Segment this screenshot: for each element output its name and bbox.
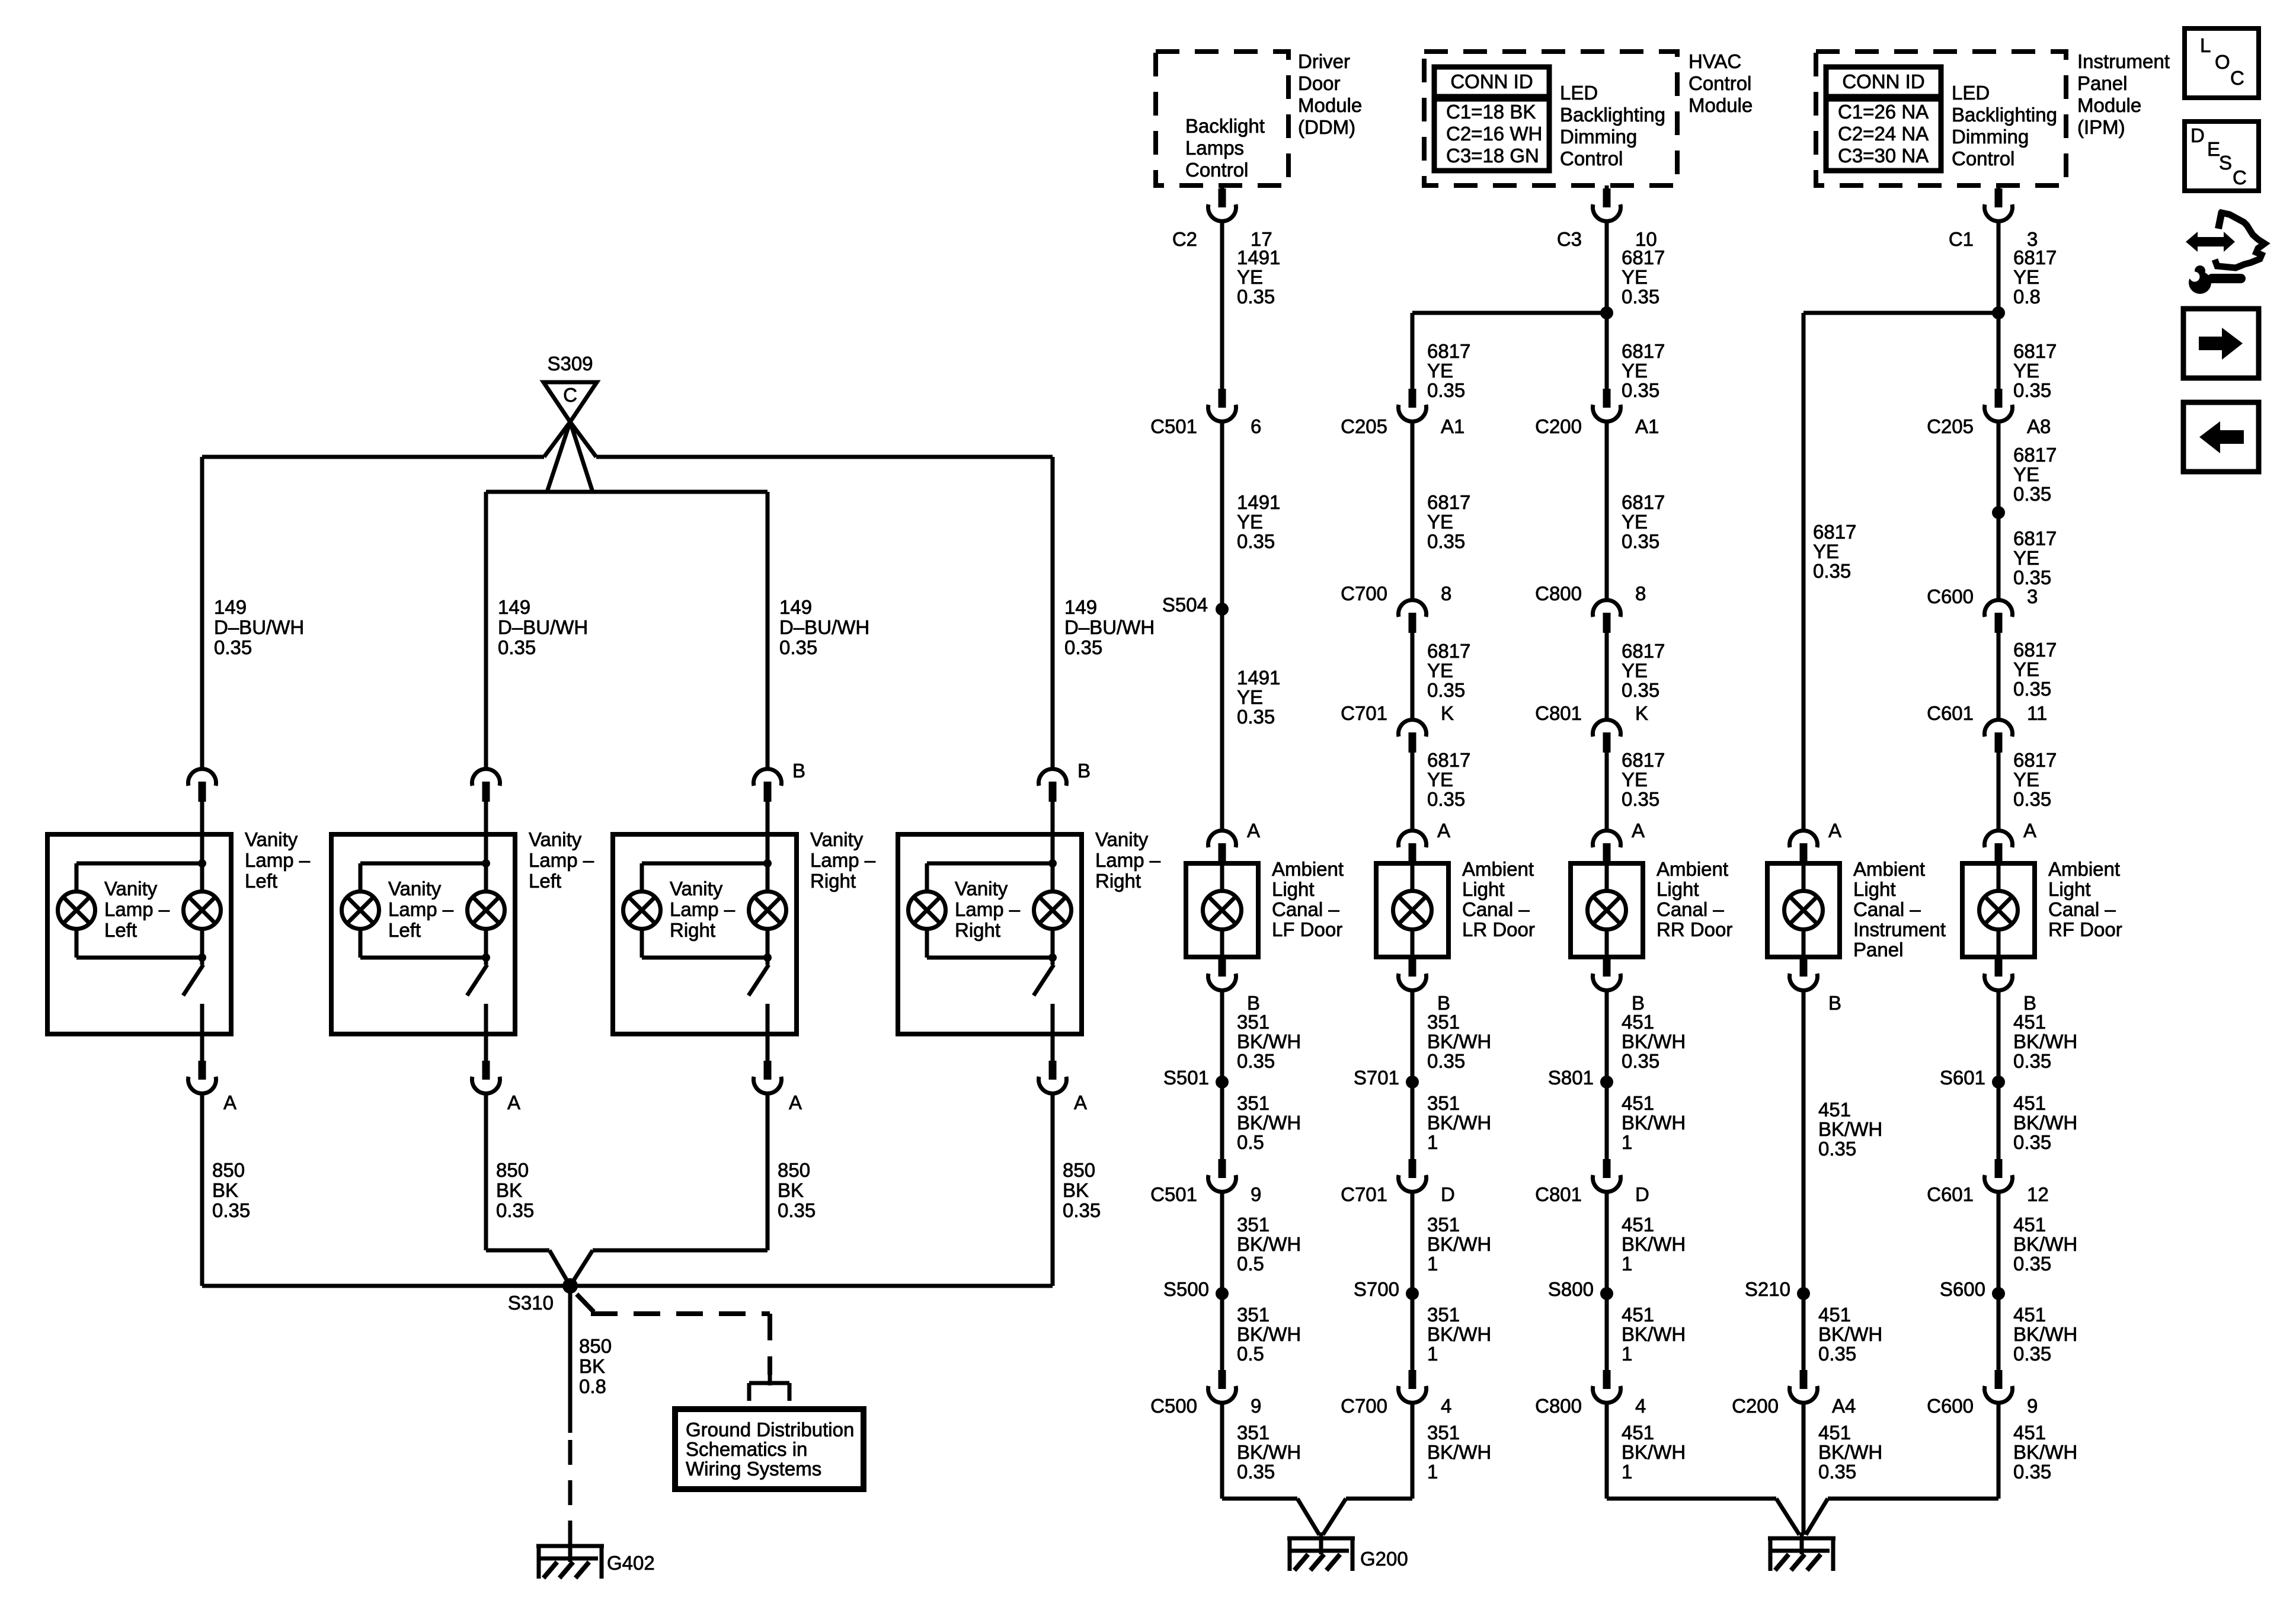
- svg-text:C200: C200: [1732, 1395, 1779, 1417]
- svg-text:Light: Light: [1272, 878, 1315, 900]
- wire: [200, 1093, 204, 1286]
- svg-text:BK/WH: BK/WH: [2013, 1441, 2077, 1463]
- svg-text:Light: Light: [1853, 878, 1896, 900]
- svg-text:YE: YE: [1427, 660, 1453, 681]
- splice S500: [1216, 1287, 1229, 1300]
- svg-text:Right: Right: [1095, 870, 1141, 892]
- wire lamp 3 branch left rise: [640, 929, 644, 958]
- svg-text:0.35: 0.35: [1818, 1138, 1856, 1160]
- svg-text:Canal –: Canal –: [1272, 898, 1339, 920]
- bulb ambient (RR Door): [1588, 891, 1626, 930]
- connector ambient lamp B (RR Door): [1603, 958, 1611, 977]
- svg-text:6: 6: [1251, 415, 1261, 437]
- svg-text:6817: 6817: [1427, 491, 1470, 513]
- svg-text:Dimming: Dimming: [1952, 126, 2029, 148]
- svg-text:Canal –: Canal –: [1462, 898, 1530, 920]
- wire: [1605, 930, 1609, 957]
- svg-text:BK: BK: [778, 1179, 804, 1201]
- svg-text:BK/WH: BK/WH: [2013, 1030, 2077, 1052]
- svg-text:6817: 6817: [2013, 444, 2057, 466]
- svg-text:YE: YE: [1427, 511, 1453, 533]
- CONN ID table (IPM): [1826, 67, 1941, 171]
- svg-text:Lamp –: Lamp –: [955, 898, 1021, 920]
- connector vanity lamp 4 pin B: [1039, 769, 1067, 786]
- svg-text:Vanity: Vanity: [529, 828, 582, 850]
- svg-text:Ambient: Ambient: [1272, 858, 1344, 880]
- wire lamp 2 branch top rail: [360, 862, 486, 866]
- svg-text:1: 1: [1427, 1343, 1438, 1365]
- wire lamp 3 branch top rail: [642, 862, 768, 866]
- svg-text:S700: S700: [1354, 1278, 1399, 1300]
- wire lamp 1 branch left rise: [75, 929, 79, 958]
- wire: [766, 802, 770, 834]
- svg-text:0.35: 0.35: [2013, 379, 2051, 401]
- wire lamp 4 branch left rise: [925, 929, 929, 958]
- wire lamp 2 internal mid: [484, 929, 488, 965]
- connector vanity lamp 4 pin A: [1049, 1061, 1057, 1080]
- svg-text:351: 351: [1427, 1214, 1460, 1235]
- svg-text:451: 451: [1622, 1422, 1654, 1443]
- ambient light lamp box (LF Door): [1186, 863, 1258, 957]
- connector C801 pin K: [1593, 720, 1621, 737]
- svg-text:0.35: 0.35: [1622, 679, 1659, 701]
- wire: [1605, 221, 1609, 389]
- svg-text:6817: 6817: [1622, 640, 1665, 662]
- connector DDM output C2: [1220, 185, 1224, 188]
- node HVAC junction: [1600, 306, 1613, 319]
- connector C600 pin 9: [1995, 1370, 2003, 1389]
- svg-text:C801: C801: [1535, 1183, 1582, 1205]
- svg-text:(IPM): (IPM): [2077, 116, 2125, 138]
- splice S801: [1600, 1076, 1613, 1089]
- connector C200 pin A4: [1800, 1370, 1808, 1389]
- wire: [1411, 421, 1415, 600]
- svg-text:C1: C1: [1949, 228, 1974, 250]
- wire: [1997, 1192, 2001, 1370]
- wire inner rail: [486, 490, 768, 494]
- wire: [766, 1034, 770, 1061]
- svg-text:0.35: 0.35: [1237, 1461, 1275, 1483]
- svg-text:6817: 6817: [1622, 340, 1665, 362]
- wire: [1051, 1034, 1055, 1061]
- svg-text:A: A: [789, 1092, 802, 1113]
- wire: [549, 1250, 570, 1286]
- svg-text:YE: YE: [1622, 511, 1648, 533]
- svg-text:451: 451: [2013, 1214, 2046, 1235]
- svg-text:6817: 6817: [2013, 749, 2057, 771]
- connector C701 pin D: [1409, 1159, 1416, 1178]
- svg-text:0.5: 0.5: [1237, 1343, 1264, 1365]
- svg-text:Vanity: Vanity: [1095, 828, 1149, 850]
- svg-text:0.35: 0.35: [1237, 286, 1275, 308]
- svg-text:S309: S309: [547, 353, 593, 375]
- svg-text:CONN ID: CONN ID: [1842, 71, 1924, 92]
- svg-text:BK/WH: BK/WH: [1237, 1233, 1301, 1255]
- wire: [1220, 863, 1224, 891]
- connector IPM output C1: [1997, 185, 2001, 188]
- svg-text:Vanity: Vanity: [388, 878, 442, 900]
- connector C700 pin 4: [1409, 1370, 1416, 1389]
- svg-text:C1=26 NA: C1=26 NA: [1838, 101, 1929, 123]
- svg-text:YE: YE: [2013, 463, 2039, 485]
- wire lamp 4 internal top: [1051, 834, 1055, 892]
- svg-text:YE: YE: [1622, 660, 1648, 681]
- bulb ambient (LF Door): [1203, 891, 1242, 930]
- svg-text:A: A: [1247, 820, 1260, 841]
- wire: [1997, 863, 2001, 891]
- svg-text:0.35: 0.35: [1427, 788, 1465, 810]
- svg-text:6817: 6817: [1427, 749, 1470, 771]
- svg-text:1: 1: [1622, 1131, 1632, 1153]
- switch lamp 1 blade: [183, 965, 203, 996]
- svg-text:Vanity: Vanity: [955, 878, 1008, 900]
- wire: [1605, 633, 1609, 720]
- connector ambient lamp A (RF Door): [1985, 831, 2013, 847]
- svg-text:RR Door: RR Door: [1657, 918, 1732, 940]
- wire lamp 4 internal bottom: [1051, 1004, 1055, 1034]
- svg-text:A1: A1: [1441, 415, 1464, 437]
- svg-text:Lamp –: Lamp –: [1095, 849, 1161, 871]
- svg-text:S601: S601: [1940, 1067, 1985, 1089]
- svg-text:D: D: [1635, 1183, 1649, 1205]
- svg-text:C501: C501: [1150, 1183, 1197, 1205]
- svg-text:B: B: [1077, 760, 1091, 782]
- connector ambient lamp B (LR Door): [1409, 958, 1416, 977]
- svg-text:351: 351: [1237, 1304, 1269, 1326]
- wire: [484, 1093, 488, 1250]
- icon back arrow box: [2183, 402, 2259, 472]
- svg-text:Door: Door: [1298, 72, 1341, 94]
- svg-text:6817: 6817: [2013, 247, 2057, 268]
- svg-text:Vanity: Vanity: [810, 828, 864, 850]
- svg-text:0.35: 0.35: [2013, 1253, 2051, 1275]
- svg-text:149: 149: [1064, 596, 1097, 618]
- wire: [1802, 863, 1806, 891]
- svg-text:Left: Left: [245, 870, 277, 892]
- svg-text:D: D: [1441, 1183, 1455, 1205]
- svg-text:C601: C601: [1927, 1183, 1974, 1205]
- svg-text:0.35: 0.35: [1818, 1461, 1856, 1483]
- vanity lamp 1 box: [47, 834, 231, 1034]
- svg-text:BK/WH: BK/WH: [1818, 1323, 1882, 1345]
- svg-text:Control: Control: [1560, 148, 1623, 169]
- svg-text:BK/WH: BK/WH: [1237, 1441, 1301, 1463]
- vanity lamp 3 box: [613, 834, 797, 1034]
- wire: [1802, 990, 1806, 1370]
- icon wrench & arrows: [2186, 232, 2235, 252]
- svg-text:YE: YE: [1237, 686, 1263, 708]
- svg-text:1: 1: [1622, 1461, 1632, 1483]
- svg-text:1: 1: [1427, 1461, 1438, 1483]
- svg-text:YE: YE: [1622, 266, 1648, 288]
- wire S309 to inner rail left: [547, 422, 570, 492]
- wire inner bottom rail left: [486, 1249, 549, 1253]
- wire: [1297, 1499, 1319, 1535]
- svg-text:0.35: 0.35: [2013, 1131, 2051, 1153]
- wire: [1605, 990, 1609, 1159]
- wire lamp 3 internal top: [766, 834, 770, 892]
- wire: [1997, 753, 2001, 831]
- wire inner bottom rail right: [593, 1249, 768, 1253]
- wire lamp 1 branch left drop: [75, 863, 79, 892]
- svg-text:YE: YE: [1622, 769, 1648, 790]
- wire lamp 3 internal bottom: [766, 1004, 770, 1034]
- svg-text:0.35: 0.35: [1622, 286, 1659, 308]
- svg-text:YE: YE: [1622, 360, 1648, 382]
- wire: [568, 1532, 573, 1562]
- switch lamp 3 blade: [749, 965, 769, 996]
- node lamp 4 top junction: [1048, 859, 1057, 868]
- bulb lamp 3 right: [749, 892, 786, 929]
- wire S309 to right top rail: [570, 422, 596, 457]
- svg-text:Canal –: Canal –: [1853, 898, 1921, 920]
- connector ambient lamp B (Instrument Panel): [1800, 958, 1808, 977]
- connector C205 pin A8: [1995, 389, 2003, 408]
- svg-text:351: 351: [1427, 1092, 1460, 1114]
- wire: [1411, 863, 1415, 891]
- svg-text:6817: 6817: [1622, 247, 1665, 268]
- svg-text:BK/WH: BK/WH: [1818, 1441, 1882, 1463]
- wire: [484, 1034, 488, 1061]
- svg-text:Module: Module: [1298, 94, 1362, 116]
- vanity lamp 4 box: [898, 834, 1082, 1034]
- svg-text:4: 4: [1441, 1395, 1451, 1417]
- connector HVAC output C3: [1605, 185, 1609, 188]
- wire: [1220, 609, 1224, 831]
- wire: [1605, 863, 1609, 891]
- svg-text:Light: Light: [1657, 878, 1699, 900]
- svg-text:RF Door: RF Door: [2048, 918, 2122, 940]
- svg-text:0.35: 0.35: [214, 636, 252, 658]
- svg-text:LR Door: LR Door: [1462, 918, 1535, 940]
- svg-text:1491: 1491: [1237, 491, 1280, 513]
- ambient light lamp box (RR Door): [1571, 863, 1643, 957]
- wire dashed branch vertical: [768, 1314, 772, 1375]
- svg-text:451: 451: [1622, 1214, 1654, 1235]
- svg-text:Right: Right: [810, 870, 856, 892]
- svg-text:A1: A1: [1635, 415, 1659, 437]
- wire vanity lamp 4 drop: [1051, 457, 1055, 769]
- wire: [1997, 930, 2001, 957]
- svg-text:451: 451: [1818, 1422, 1851, 1443]
- svg-text:Module: Module: [2077, 94, 2141, 116]
- svg-text:S801: S801: [1548, 1067, 1594, 1089]
- svg-text:0.35: 0.35: [778, 1199, 816, 1221]
- wire: [1220, 930, 1224, 957]
- svg-text:Lamp –: Lamp –: [245, 849, 311, 871]
- wire lamp 1 internal bottom: [200, 1004, 204, 1034]
- svg-text:850: 850: [579, 1335, 612, 1357]
- svg-text:BK/WH: BK/WH: [2013, 1233, 2077, 1255]
- svg-text:L: L: [2200, 34, 2211, 56]
- CONN ID table (HVAC): [1434, 67, 1549, 171]
- wire top rail right: [596, 455, 1053, 459]
- svg-text:YE: YE: [1237, 511, 1263, 533]
- svg-text:C701: C701: [1341, 1183, 1387, 1205]
- svg-text:351: 351: [1237, 1011, 1269, 1033]
- wire: [1220, 1192, 1224, 1370]
- svg-text:C601: C601: [1927, 702, 1974, 724]
- wire lamp 2 internal bottom: [484, 1004, 488, 1034]
- svg-text:K: K: [1635, 702, 1648, 724]
- wire: [1776, 1499, 1799, 1535]
- wire 850 BK 0.8 dashed: [568, 1440, 573, 1532]
- wire dashed branch from S310: [577, 1294, 594, 1312]
- svg-text:451: 451: [1622, 1011, 1654, 1033]
- wire: [1997, 990, 2001, 1159]
- svg-text:351: 351: [1237, 1422, 1269, 1443]
- svg-text:Right: Right: [670, 919, 715, 941]
- svg-text:11: 11: [2027, 702, 2047, 724]
- wire: [1802, 930, 1806, 957]
- connector C600 pin 3: [1985, 600, 2013, 617]
- svg-text:BK/WH: BK/WH: [1427, 1030, 1491, 1052]
- svg-text:C: C: [2233, 167, 2247, 188]
- wire top rail left: [202, 455, 544, 459]
- svg-text:C: C: [563, 384, 577, 406]
- svg-text:Left: Left: [388, 919, 421, 941]
- svg-text:C200: C200: [1535, 415, 1582, 437]
- svg-text:S500: S500: [1163, 1278, 1209, 1300]
- svg-text:LED: LED: [1560, 82, 1598, 104]
- svg-text:Ambient: Ambient: [1462, 858, 1534, 880]
- wire S309 to inner rail right: [570, 422, 593, 492]
- svg-text:0.35: 0.35: [1064, 636, 1102, 658]
- svg-text:451: 451: [2013, 1304, 2046, 1326]
- svg-text:BK/WH: BK/WH: [2013, 1323, 2077, 1345]
- wire: [200, 1034, 204, 1061]
- svg-text:C700: C700: [1341, 1395, 1387, 1417]
- svg-text:C3=30 NA: C3=30 NA: [1838, 145, 1929, 167]
- wire: [1319, 1532, 1323, 1554]
- svg-text:G402: G402: [607, 1552, 655, 1574]
- splice S504: [1216, 603, 1229, 616]
- svg-text:YE: YE: [1427, 360, 1453, 382]
- svg-text:451: 451: [1622, 1304, 1654, 1326]
- bulb lamp 1 left: [58, 892, 95, 929]
- connector C200 pin A1: [1603, 389, 1611, 408]
- svg-text:D–BU/WH: D–BU/WH: [214, 616, 304, 638]
- svg-text:6817: 6817: [1427, 640, 1470, 662]
- svg-text:6817: 6817: [2013, 639, 2057, 661]
- svg-text:G200: G200: [1360, 1548, 1408, 1570]
- wire HVAC junction rail: [1412, 311, 1607, 315]
- module HVAC Control Module box: [1424, 52, 1677, 185]
- svg-text:Left: Left: [529, 870, 561, 892]
- connector C500 pin 9: [1219, 1370, 1226, 1389]
- node lamp 3 bottom junction: [763, 953, 772, 962]
- svg-text:0.35: 0.35: [1237, 706, 1275, 728]
- svg-text:C701: C701: [1341, 702, 1387, 724]
- svg-text:850: 850: [496, 1159, 529, 1181]
- svg-text:Ambient: Ambient: [2048, 858, 2120, 880]
- svg-text:Backlighting: Backlighting: [1952, 104, 2057, 126]
- connector C601 pin 11: [1985, 720, 2013, 737]
- splice S309 triangle: [543, 382, 597, 422]
- svg-text:351: 351: [1237, 1092, 1269, 1114]
- connector C700 pin 8: [1399, 600, 1427, 617]
- svg-text:BK/WH: BK/WH: [1622, 1112, 1686, 1134]
- svg-text:451: 451: [2013, 1422, 2046, 1443]
- bulb lamp 4 right: [1034, 892, 1072, 929]
- wire: [1323, 1499, 1346, 1535]
- svg-text:0.35: 0.35: [2013, 483, 2051, 505]
- svg-text:9: 9: [1251, 1183, 1261, 1205]
- svg-text:0.35: 0.35: [1813, 560, 1851, 582]
- wire: [1411, 930, 1415, 957]
- svg-text:LF Door: LF Door: [1272, 918, 1342, 940]
- svg-text:12: 12: [2027, 1183, 2049, 1205]
- svg-text:Lamp –: Lamp –: [670, 898, 736, 920]
- svg-text:0.35: 0.35: [498, 636, 536, 658]
- svg-text:0.35: 0.35: [1427, 1050, 1465, 1072]
- connector ambient lamp A (LF Door): [1208, 831, 1236, 847]
- svg-text:YE: YE: [1813, 540, 1839, 562]
- svg-text:BK: BK: [579, 1355, 605, 1377]
- svg-text:6817: 6817: [1427, 340, 1470, 362]
- svg-text:E: E: [2207, 138, 2220, 160]
- vanity lamp 2 box: [331, 834, 515, 1034]
- svg-text:0.5: 0.5: [1237, 1253, 1264, 1275]
- wire lamp 2 branch left drop: [359, 863, 363, 892]
- svg-text:BK/WH: BK/WH: [1237, 1112, 1301, 1134]
- module Driver Door Module (DDM) box: [1156, 52, 1288, 185]
- svg-text:6817: 6817: [1813, 521, 1856, 543]
- svg-text:A4: A4: [1832, 1395, 1856, 1417]
- svg-text:YE: YE: [2013, 769, 2039, 790]
- svg-text:Lamp –: Lamp –: [104, 898, 170, 920]
- svg-text:0.35: 0.35: [2013, 1050, 2051, 1072]
- wire: [766, 1093, 770, 1250]
- svg-text:0.5: 0.5: [1237, 1131, 1264, 1153]
- wire lamp 1 branch bottom rail: [76, 956, 202, 960]
- svg-text:BK: BK: [1063, 1179, 1089, 1201]
- svg-text:Light: Light: [1462, 878, 1505, 900]
- svg-text:Instrument: Instrument: [1853, 918, 1946, 940]
- wire: [1806, 1499, 1828, 1535]
- wire: [1051, 802, 1055, 834]
- svg-text:0.35: 0.35: [1237, 1050, 1275, 1072]
- node lamp 1 top junction: [198, 859, 206, 868]
- svg-text:B: B: [1828, 992, 1841, 1014]
- wire: [1411, 1403, 1415, 1499]
- svg-text:1491: 1491: [1237, 667, 1280, 689]
- svg-text:9: 9: [1251, 1395, 1261, 1417]
- wire lamp 3 branch bottom rail: [642, 956, 768, 960]
- connector ambient lamp A (LR Door): [1399, 831, 1427, 847]
- svg-text:850: 850: [1063, 1159, 1095, 1181]
- svg-text:850: 850: [212, 1159, 245, 1181]
- svg-text:D: D: [2191, 124, 2205, 146]
- connector ambient lamp B (RF Door): [1995, 958, 2003, 977]
- svg-text:Ground Distribution: Ground Distribution: [686, 1419, 854, 1441]
- svg-text:A8: A8: [2027, 415, 2051, 437]
- svg-text:Lamp –: Lamp –: [388, 898, 454, 920]
- svg-text:C501: C501: [1150, 415, 1197, 437]
- svg-text:C600: C600: [1927, 585, 1974, 607]
- svg-text:C3=18 GN: C3=18 GN: [1446, 145, 1539, 167]
- svg-text:Ambient: Ambient: [1657, 858, 1728, 880]
- svg-text:BK/WH: BK/WH: [1622, 1030, 1686, 1052]
- ambient light lamp box (Instrument Panel): [1767, 863, 1840, 957]
- wire: [484, 802, 488, 834]
- svg-text:Light: Light: [2048, 878, 2091, 900]
- svg-text:LED: LED: [1952, 82, 1990, 104]
- svg-text:YE: YE: [2013, 266, 2039, 288]
- svg-text:D–BU/WH: D–BU/WH: [1064, 616, 1155, 638]
- splice S600: [1992, 1287, 2005, 1300]
- reference box Ground Distribution Schematics: [675, 1409, 864, 1489]
